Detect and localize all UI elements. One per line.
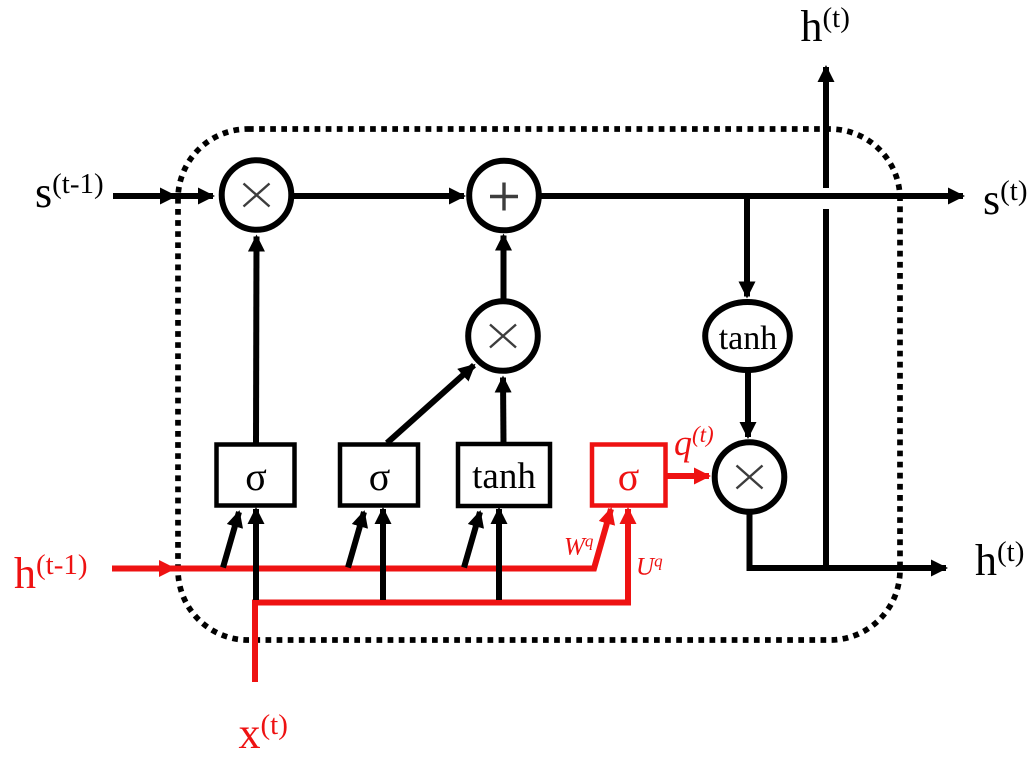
wire tanh box up to times2 (500, 378, 507, 444)
svg-text:h(t): h(t) (975, 536, 1024, 585)
wire plus-to-s(t) output (540, 193, 963, 199)
tanh box (458, 444, 550, 506)
svg-text:s(t): s(t) (983, 175, 1028, 224)
svg-text:Wq: Wq (564, 532, 594, 561)
wire x1-to-plus (293, 193, 464, 199)
svg-text:tanh: tanh (719, 320, 778, 357)
svg-text:σ: σ (245, 454, 267, 499)
arrowhead at boundary (160, 188, 177, 205)
times circle 2 (468, 301, 538, 371)
tanh circle (705, 302, 790, 370)
svg-text:s(t-1): s(t-1) (35, 168, 104, 217)
svg-text:h(t): h(t) (801, 2, 850, 51)
times circle 1 (222, 160, 292, 230)
times circle 3 (715, 442, 785, 512)
wire tanhbox vertical input (496, 509, 502, 600)
plus circle (469, 161, 539, 231)
wire sigma1 up to times1 (253, 237, 260, 445)
wire times3 down and right to h(t) output (750, 514, 947, 568)
wire red h(t-1) input line with Wq bend (112, 509, 611, 569)
wire red q(t) arrow to times3 (665, 473, 709, 479)
sigma box 1 (217, 445, 295, 506)
sigma box 2 (340, 445, 418, 506)
svg-text:Uq: Uq (636, 552, 663, 581)
svg-text:q(t): q(t) (674, 422, 714, 463)
wire tanhbox diagonal input (464, 512, 480, 568)
svg-text:σ: σ (618, 454, 640, 499)
svg-text:h(t-1): h(t-1) (14, 549, 88, 598)
wire sigma1 vertical input (253, 509, 259, 600)
wire sigma2 diagonal to times2 (387, 365, 474, 443)
svg-text:tanh: tanh (472, 456, 536, 497)
wire s(t-1) input (113, 193, 213, 199)
dashed cell boundary (178, 129, 900, 640)
sigma box red (592, 445, 666, 506)
wire sigma1 diagonal input (223, 512, 239, 568)
wire junction down to tanh circle (744, 199, 750, 297)
wire sigma2 vertical input (380, 509, 386, 600)
wire h(t) vertical up (lower segment) (823, 209, 829, 568)
svg-text:x(t): x(t) (239, 709, 288, 758)
svg-text:σ: σ (369, 454, 391, 499)
wire red x(t) line with Uq branch (255, 509, 628, 682)
wire tanh circle to times3 (745, 371, 751, 437)
wire times2 up to plus (501, 236, 507, 300)
wire sigma2 diagonal input (348, 512, 364, 568)
arrowhead red at boundary (159, 560, 176, 577)
wire h(t) vertical up (upper segment with arrow) (823, 67, 829, 188)
